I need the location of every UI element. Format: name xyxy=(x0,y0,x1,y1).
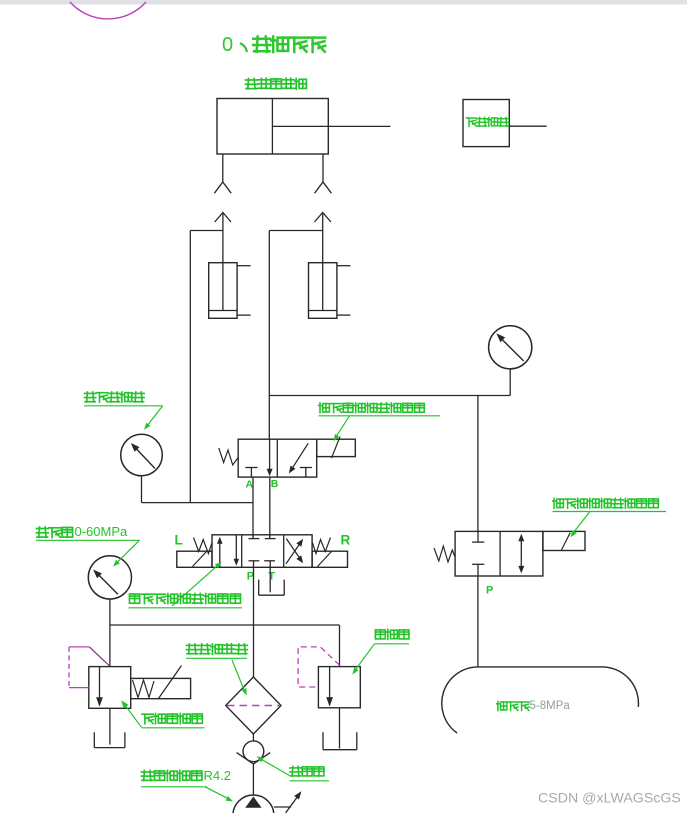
wire to top-right gauge xyxy=(509,369,511,396)
left support piston xyxy=(209,310,237,312)
filter element dashed xyxy=(227,705,280,707)
svg-text:R4.2: R4.2 xyxy=(204,768,231,783)
valve 4-3 left spring xyxy=(194,538,213,554)
left support port top xyxy=(237,265,251,267)
wire B vertical upper xyxy=(268,231,270,440)
valve 2-2 open path double arrow xyxy=(518,534,524,574)
valve 4-3 crossed paths xyxy=(286,539,303,564)
manifold horizontal wire xyxy=(110,624,340,626)
svg-text:P: P xyxy=(486,584,493,596)
pump circle xyxy=(233,795,274,818)
prop relief solenoid box xyxy=(131,678,191,698)
wire gauge to prop valve xyxy=(109,599,111,667)
relief valve flow arrow xyxy=(326,667,333,707)
label: relief valve xyxy=(352,629,409,674)
valve 2-3 blocked port right xyxy=(300,468,312,478)
valve 2-3 straight path B xyxy=(267,439,273,476)
port label P xyxy=(247,570,254,582)
valve 2-2 spring xyxy=(434,546,455,562)
wire 2-2 valve to accumulator xyxy=(477,576,479,667)
label: radial piston pump R4.2 xyxy=(141,768,233,802)
valve 2-3 solenoid box xyxy=(317,437,356,458)
relief valve outlet wire xyxy=(339,708,341,749)
filter diamond xyxy=(226,677,281,734)
wire check valve to pump xyxy=(252,764,254,796)
valve 2-2 blocked ports xyxy=(472,531,484,576)
wire branch to 2-2 valve xyxy=(477,396,479,532)
pump triangle xyxy=(245,797,261,808)
force sensor box xyxy=(463,100,509,147)
svg-text:L: L xyxy=(175,532,183,547)
valve 4-3 body squares xyxy=(212,535,312,568)
port label L xyxy=(175,532,183,547)
svg-text:A: A xyxy=(246,478,254,490)
right support rod xyxy=(322,213,324,311)
label: test workpiece cylinder xyxy=(246,78,307,89)
pressure sensor gauge xyxy=(121,434,163,476)
port label A xyxy=(246,478,254,490)
label: check valve xyxy=(257,756,330,780)
check valve xyxy=(237,741,271,764)
port label T xyxy=(268,570,275,582)
title text 0- initial state xyxy=(222,34,325,56)
valve 4-3 parallel path up arrow xyxy=(217,537,223,568)
port label R xyxy=(341,532,351,547)
valve 2-3 body squares xyxy=(238,439,317,477)
wire manifold to relief valve xyxy=(339,625,341,667)
label: force sensor xyxy=(466,117,508,126)
right support port bottom xyxy=(337,314,351,316)
prop relief flow arrow xyxy=(96,667,103,707)
svg-text:R: R xyxy=(341,532,351,547)
label: pressure gauge 0-60MPa xyxy=(36,524,140,566)
pump variable arrow xyxy=(274,791,302,813)
valve 4-3 left solenoid box xyxy=(177,551,212,567)
wire to left support xyxy=(190,230,223,232)
relief valve pilot dashed xyxy=(298,647,339,687)
up arrow right support xyxy=(315,213,331,223)
svg-text:B: B xyxy=(271,478,279,490)
right support cylinder body xyxy=(309,263,337,319)
right support port top xyxy=(337,265,351,267)
cylinder right leg xyxy=(315,154,332,193)
tank symbol prop relief xyxy=(94,732,125,747)
right support piston xyxy=(309,310,337,312)
left support port bottom xyxy=(237,314,251,316)
svg-text:0-60MPa: 0-60MPa xyxy=(75,524,129,539)
label: pressure sensor xyxy=(84,392,163,430)
decorative magenta arc xyxy=(70,2,146,19)
wire from force sensor xyxy=(509,125,546,127)
wire below pressure sensor gauge xyxy=(141,476,143,503)
watermark CSDN xyxy=(538,791,681,807)
valve 2-3 crossed path xyxy=(289,443,308,473)
cylinder left leg xyxy=(214,154,231,193)
wire A vertical xyxy=(252,477,254,537)
up arrow left support xyxy=(215,213,231,223)
svg-text:5-8MPa: 5-8MPa xyxy=(530,700,571,712)
label: 3-pos 4-way solenoid valve xyxy=(129,562,243,608)
label: 2-pos 2-way solenoid valve xyxy=(553,498,667,537)
wire B branch horizontal xyxy=(269,395,510,397)
left support cylinder body xyxy=(209,263,237,319)
wire P vertical xyxy=(253,567,255,677)
wire B vertical lower xyxy=(269,477,271,537)
valve 2-3 spring xyxy=(219,448,238,465)
valve 4-3 right spring xyxy=(312,538,330,554)
valve 2-2 solenoid box xyxy=(543,531,585,550)
pressure gauge top-right xyxy=(489,326,532,369)
prop relief outlet wire xyxy=(109,708,111,744)
cylinder rod xyxy=(272,125,390,127)
valve 4-3 right solenoid box xyxy=(312,551,347,567)
svg-text:CSDN @xLWAGScGS: CSDN @xLWAGScGS xyxy=(538,791,681,807)
valve 2-3 blocked port A xyxy=(245,468,257,478)
cylinder piston xyxy=(271,99,273,155)
port label P accumulator xyxy=(486,584,493,596)
svg-text:T: T xyxy=(268,570,275,582)
tank symbol relief valve xyxy=(323,732,357,750)
label: high pressure filter xyxy=(186,644,247,696)
page header bar xyxy=(0,0,687,5)
prop relief proportional slash xyxy=(159,666,182,699)
prop relief valve body xyxy=(89,667,131,709)
pressure gauge 0-60MPa xyxy=(88,556,131,599)
valve 4-3 center blocked ports xyxy=(249,535,276,568)
wire left A-branch vertical xyxy=(189,231,191,503)
tank symbol under T xyxy=(259,567,285,595)
valve 2-2 body squares xyxy=(455,531,543,576)
relief valve body xyxy=(318,667,360,708)
valve 4-3 parallel path down arrow xyxy=(234,535,240,566)
prop relief pilot line magenta xyxy=(69,647,109,688)
label: 2-pos 3-way solenoid valve xyxy=(319,403,441,441)
svg-text:0: 0 xyxy=(222,34,233,56)
port label B xyxy=(271,478,279,490)
wire filter to check valve xyxy=(252,734,254,741)
left support rod xyxy=(222,213,224,311)
accumulator vessel xyxy=(442,667,639,733)
label: proportional relief valve xyxy=(121,700,204,728)
wire to right support xyxy=(269,230,322,232)
wire A branch horizontal xyxy=(142,502,254,504)
cylinder: test workpiece cylinder body xyxy=(217,99,328,155)
label: accumulator 5-8MPa xyxy=(497,700,571,712)
prop relief spring xyxy=(133,680,155,698)
